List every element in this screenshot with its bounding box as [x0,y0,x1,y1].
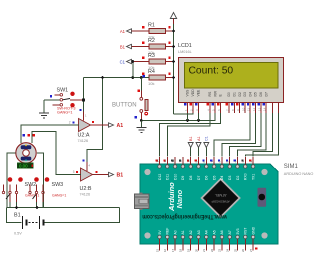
svg-text:5V: 5V [158,230,162,235]
svg-text:RW: RW [213,90,217,96]
ATMEGA328P chip [202,179,240,217]
SIM1 labels [284,164,314,176]
wire VEE drop [198,113,200,120]
svg-text:D2: D2 [238,92,242,96]
wire LCD E to pad1 [160,113,221,157]
svg-text:A1: A1 [181,230,185,234]
svg-text:TX1: TX1 [251,174,255,180]
svg-text:U2:A: U2:A [78,133,90,139]
svg-text:D4: D4 [248,92,252,96]
Arduino bottom pins [155,226,255,252]
svg-text:D10: D10 [173,174,177,180]
svg-text:BUTTON: BUTTON [112,103,137,109]
svg-text:VSS: VSS [186,89,190,97]
svg-text:D4: D4 [220,176,224,180]
svg-text:A3: A3 [197,230,201,234]
svg-text:B1: B1 [189,136,193,141]
wire U2:B output to terminal B1 [93,172,124,178]
wire LCD D6 to pad10 [230,113,261,157]
encoder counter display [17,163,33,169]
power +5V terminal [170,13,176,25]
svg-text:17: 17 [171,248,175,252]
svg-text:5: 5 [73,170,75,174]
svg-text:Nano: Nano [175,189,184,208]
svg-text:VEE: VEE [197,89,201,97]
svg-text:D5: D5 [212,176,216,180]
+5V rail wire [173,24,175,114]
svg-text:27: 27 [249,248,253,252]
wire LCD D4 to pad8 [214,113,250,157]
USB connector [135,193,150,210]
svg-text:D1: D1 [233,92,237,96]
svg-text:D3: D3 [243,92,247,96]
svg-text:A1: A1 [117,123,124,129]
svg-text:B1: B1 [120,45,126,50]
Arduino top pins [155,157,255,180]
op-amp buffer U2:B 74126 [73,159,98,196]
svg-text:GANG=1: GANG=1 [25,194,39,198]
bottom pin state square [255,247,257,249]
encoder state squares [22,134,34,136]
wire LCD RS to pad2 [167,113,210,157]
svg-text:2: 2 [69,121,71,125]
svg-text:10: 10 [241,107,245,111]
resistor R1 10k [142,23,173,40]
resistor R4 10k [142,69,173,86]
rail junction dots [172,30,175,79]
svg-text:A0: A0 [173,230,177,234]
wire LCD pin16 loop to pad12 [245,113,278,157]
svg-text:D8: D8 [189,176,193,180]
svg-text:C1: C1 [120,60,126,65]
svg-text:14: 14 [155,159,159,163]
svg-text:26: 26 [241,248,245,252]
junction dots on R4 net [101,76,143,79]
wire terminal to R1 [132,30,150,32]
svg-text:GANG=1: GANG=1 [57,111,73,115]
switch SW1 (SW-ROT-3) [44,88,85,115]
svg-text:D7: D7 [264,92,268,96]
svg-text:www.TheEngineeringProjects.com: www.TheEngineeringProjects.com [142,213,227,219]
wire bottom rail [7,202,120,209]
wire R4 row net [84,77,150,79]
svg-text:GANG=1: GANG=1 [52,194,66,198]
test button on board [258,188,267,207]
svg-text:D11: D11 [166,174,170,180]
svg-text:12: 12 [171,159,175,163]
svg-text:R2: R2 [148,38,155,44]
wire node to R4 [133,77,149,79]
svg-text:ATMEL: ATMEL [215,193,227,197]
terminal A1 above Arduino [196,136,201,156]
svg-text:16: 16 [163,248,167,252]
svg-text:15: 15 [155,248,159,252]
svg-text:SW3: SW3 [52,182,64,188]
board silk texts [142,182,227,219]
svg-text:A1: A1 [197,136,201,141]
svg-text:10k: 10k [148,81,154,86]
wire encoder right pin to bottom rail [37,153,44,207]
terminal B1 above Arduino [188,136,193,156]
svg-text:14: 14 [263,107,267,111]
svg-text:D7: D7 [197,176,201,180]
svg-text:D2: D2 [236,176,240,180]
switch SW3 [29,177,67,202]
wire ground net [140,113,215,122]
svg-text:D6: D6 [259,92,263,96]
svg-text:LCD1: LCD1 [178,43,192,49]
LCD LM016L body [179,58,284,103]
wire enable drop U2:A (via SW1 junction) [83,78,85,121]
svg-text:D12: D12 [158,174,162,180]
svg-text:A1: A1 [120,29,126,34]
svg-text:D5: D5 [254,92,258,96]
wire encoder left pin to bottom rail [7,153,16,207]
terminal B1 input [120,44,132,49]
svg-text:B1: B1 [117,173,124,179]
svg-text:0.00: 0.00 [19,164,28,169]
wire VSS drop [187,113,189,120]
Arduino Nano SIM1 board [140,164,278,244]
battery B1 [7,208,120,236]
svg-text:25: 25 [233,248,237,252]
wire terminal to R2 [132,46,150,48]
wire LCD D5 to pad9 [222,113,256,157]
svg-text:0.5V: 0.5V [14,232,22,236]
svg-text:11: 11 [247,108,251,111]
wire encoder B to U2:B input [32,132,81,175]
svg-text:20: 20 [194,248,198,252]
op-amp buffer U2:A 74126 [69,109,94,143]
svg-text:13: 13 [257,107,261,111]
wire C1 vertical to button [131,60,144,77]
svg-text:Count: 50: Count: 50 [189,66,234,77]
resistor R3 10k [142,53,173,70]
svg-text:A2: A2 [189,230,193,234]
wire encoder A to U2:A input [21,125,79,143]
svg-text:U2:B: U2:B [80,186,92,192]
svg-text:R4: R4 [148,69,155,75]
svg-text:A5: A5 [212,230,216,234]
svg-text:D3: D3 [228,176,232,180]
svg-text:22: 22 [210,248,214,252]
svg-text:D9: D9 [181,176,185,180]
ground for SW1 [39,100,49,118]
svg-text:24: 24 [226,248,230,252]
svg-text:ARDUINO NANO: ARDUINO NANO [284,172,314,176]
svg-text:SIM1: SIM1 [284,164,299,170]
svg-text:LM016L: LM016L [178,50,192,54]
svg-text:13: 13 [163,159,167,163]
push button BUTTON [112,78,148,121]
svg-text:RX0: RX0 [244,173,248,180]
wire terminal to R3 [132,61,150,63]
svg-text:12: 12 [252,107,256,111]
mounting holes [144,169,267,239]
wire U2:A output to terminal A1 [91,123,124,129]
terminal C1 input [120,59,132,64]
svg-text:11: 11 [179,159,183,162]
switch SW2 [2,177,39,202]
wire LCD D7 to pad11 [238,113,267,157]
terminal A1 input [120,29,132,34]
svg-text:A4: A4 [205,230,209,234]
terminal C1 above Arduino [204,136,209,156]
svg-text:B1: B1 [14,213,21,219]
resistor R2 10k [142,38,173,55]
svg-text:D6: D6 [205,176,209,180]
wire enable drop U2:B [87,78,103,172]
svg-text:A6: A6 [220,230,224,234]
svg-text:74126: 74126 [80,192,91,196]
svg-text:74126: 74126 [78,139,89,143]
ground symbol below net [136,120,146,132]
svg-text:VDD: VDD [191,89,195,97]
svg-text:RST: RST [244,228,248,235]
svg-text:3V3: 3V3 [236,228,240,234]
svg-text:10: 10 [187,159,191,163]
wire VDD to +5V rail [174,113,194,114]
svg-text:19: 19 [187,248,191,252]
LCD LCD1 label [178,43,192,54]
svg-text:SW1: SW1 [57,88,69,94]
svg-text:ATMEGA328P: ATMEGA328P [211,199,229,203]
wire LCD pin15 loop to pad13 [253,113,273,157]
svg-text:A7: A7 [228,230,232,234]
svg-text:R1: R1 [148,23,155,29]
svg-text:R3: R3 [148,53,155,59]
svg-text:GND: GND [251,226,255,234]
svg-text:23: 23 [218,248,222,252]
svg-text:18: 18 [179,248,183,252]
svg-text:REF: REF [166,228,170,235]
svg-text:21: 21 [202,248,206,252]
svg-text:C1: C1 [205,136,209,141]
svg-text:RS: RS [208,91,212,96]
rotary encoder [16,143,36,163]
svg-text:D0: D0 [227,92,231,96]
LCD pin labels and stubs [184,89,278,113]
